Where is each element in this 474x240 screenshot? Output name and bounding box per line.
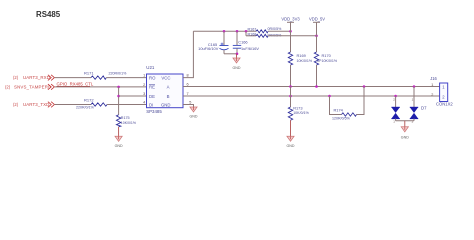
- svg-text:(2): (2): [13, 102, 19, 107]
- svg-text:RE: RE: [149, 85, 155, 90]
- junction A R170: [315, 85, 318, 88]
- svg-text:(2): (2): [5, 84, 11, 89]
- junction B R174: [328, 95, 331, 98]
- junction A R174: [363, 85, 366, 88]
- svg-text:10K/0/1%: 10K/0/1%: [121, 121, 136, 125]
- svg-text:R167: R167: [248, 27, 257, 31]
- svg-text:GND: GND: [115, 144, 123, 148]
- svg-text:120R/0/5%: 120R/0/5%: [332, 116, 351, 120]
- TVS diode D7b: [410, 87, 418, 124]
- svg-text:R171: R171: [84, 70, 94, 75]
- wire UART3_TXD to R172: [55, 104, 91, 106]
- svg-text:R170: R170: [322, 53, 332, 58]
- svg-text:GND: GND: [190, 115, 198, 119]
- wire 5V rail to R170: [316, 36, 318, 52]
- svg-text:VDD_5V: VDD_5V: [309, 17, 325, 22]
- port UART3_RXD: [13, 75, 50, 80]
- TVS diode D7a: [391, 96, 399, 124]
- junction C166: [236, 30, 239, 33]
- junction 3V3 rail: [289, 30, 292, 33]
- wire R172 to U21 pin4: [107, 104, 147, 106]
- svg-text:10K/0/1%: 10K/0/1%: [322, 59, 338, 63]
- svg-text:7: 7: [187, 92, 189, 96]
- wire vertical RE-DE tie down to R175: [118, 87, 120, 115]
- resistor R172: [91, 103, 107, 106]
- junction RE tie: [117, 86, 120, 89]
- svg-text:VCC: VCC: [161, 75, 170, 80]
- svg-text:UART3_TXD: UART3_TXD: [23, 102, 49, 107]
- svg-text:1: 1: [143, 74, 145, 78]
- capacitor C166: [233, 31, 260, 54]
- ground under R173: [287, 136, 295, 148]
- port symbol row2 chevron: [48, 84, 55, 90]
- wire R167 to VDD_3V3 rail: [268, 30, 291, 32]
- wire R168 branch stem: [245, 31, 247, 36]
- svg-text:R174: R174: [334, 108, 344, 113]
- junction A TVS2: [413, 85, 416, 88]
- junction R168 branch: [245, 30, 248, 33]
- svg-text:10uF/6/10V: 10uF/6/10V: [198, 46, 219, 51]
- junction B TVS1: [394, 95, 397, 98]
- wire cap bottoms join: [224, 53, 237, 55]
- svg-text:A: A: [167, 85, 170, 90]
- svg-text:2: 2: [393, 98, 395, 102]
- junction DE row: [117, 95, 120, 98]
- wire R174 right riser to A: [357, 87, 365, 115]
- svg-text:1uF/6/16V: 1uF/6/16V: [241, 46, 259, 51]
- IC U21 SP3485: [146, 65, 183, 114]
- svg-text:R173: R173: [293, 106, 302, 111]
- connector J16: [430, 76, 453, 106]
- wire GND pin5: [183, 105, 194, 108]
- wire VCC top rail: [193, 30, 256, 32]
- wire VCC pin8 up: [183, 31, 193, 77]
- port SNVS_TAMPER0: [5, 84, 51, 89]
- svg-text:R175: R175: [121, 116, 130, 120]
- ground under U21 pin5: [190, 107, 198, 119]
- resistor R174: [342, 113, 357, 116]
- svg-text:CON1X2: CON1X2: [436, 101, 453, 106]
- ground under R175: [115, 136, 123, 148]
- svg-text:8: 8: [187, 73, 189, 77]
- svg-text:J16: J16: [430, 76, 437, 81]
- svg-text:GND: GND: [401, 135, 409, 139]
- svg-text:SNVS_TAMPER0: SNVS_TAMPER0: [14, 85, 51, 90]
- svg-text:GPIO_RX485_CTL: GPIO_RX485_CTL: [57, 81, 94, 86]
- wire bus B: [183, 95, 440, 97]
- wire R173 to ground: [290, 120, 292, 136]
- resistor R169: [288, 52, 292, 65]
- svg-text:DE: DE: [149, 94, 155, 99]
- power VDD_5V: [309, 17, 325, 36]
- junction 5V rail: [315, 35, 318, 38]
- svg-text:10K/0/1%: 10K/0/1%: [297, 59, 313, 63]
- port symbol row1 chevron: [48, 75, 55, 81]
- svg-text:GND: GND: [287, 144, 295, 148]
- svg-text:B: B: [167, 94, 170, 99]
- svg-text:220R/0/1%: 220R/0/1%: [109, 71, 128, 75]
- svg-text:C166: C166: [238, 39, 247, 44]
- wire R169 to bus A: [290, 65, 292, 87]
- port UART3_TXD: [13, 102, 49, 107]
- svg-text:RO: RO: [149, 75, 156, 80]
- svg-text:DI: DI: [149, 102, 153, 107]
- svg-text:220R/0/1%: 220R/0/1%: [76, 106, 95, 110]
- port symbol row3 chevron: [48, 102, 55, 108]
- svg-text:0R/0/5%: 0R/0/5%: [268, 27, 283, 31]
- svg-text:R168: R168: [248, 32, 257, 36]
- wire R170 to bus A: [316, 65, 318, 87]
- wire SNVS_TAMPER0 to U21 pin2: [55, 86, 147, 88]
- svg-text:R169: R169: [297, 53, 306, 58]
- svg-text:1: 1: [431, 83, 433, 87]
- wire R168 to VDD_5V rail: [268, 35, 317, 37]
- pin numbers U21 left: [143, 74, 145, 105]
- capacitor C165: [198, 31, 228, 54]
- wire R171 to U21 pin1: [106, 77, 146, 79]
- svg-text:U21: U21: [146, 65, 155, 70]
- wire bus A: [183, 86, 440, 88]
- svg-text:VDD_3V3: VDD_3V3: [281, 17, 300, 22]
- junction cap gnd: [236, 53, 239, 56]
- ground under D7: [401, 127, 409, 140]
- svg-text:R172: R172: [84, 97, 94, 102]
- wire B to R173: [290, 96, 292, 107]
- svg-text:4: 4: [143, 101, 145, 105]
- svg-text:1: 1: [412, 98, 414, 102]
- ground under C165 C166: [233, 58, 241, 70]
- svg-text:GND: GND: [161, 102, 171, 107]
- svg-text:10K/0/1%: 10K/0/1%: [293, 111, 309, 115]
- wire TVS bottoms join: [396, 120, 414, 122]
- wire UART3_RXD to R171: [55, 77, 91, 79]
- svg-text:RS485: RS485: [36, 10, 61, 19]
- wire R174 left riser from B: [330, 96, 342, 115]
- wire DE pin3: [119, 95, 147, 97]
- svg-text:UART3_RXD: UART3_RXD: [23, 75, 50, 80]
- svg-text:3: 3: [143, 92, 145, 96]
- svg-text:D7: D7: [421, 106, 427, 111]
- wire R175 to ground: [118, 127, 120, 137]
- resistor R171: [91, 76, 106, 79]
- resistor R175: [116, 115, 120, 127]
- junction A R169: [289, 85, 292, 88]
- svg-text:2: 2: [431, 93, 433, 97]
- svg-text:2: 2: [143, 83, 145, 87]
- power VDD_3V3: [281, 17, 300, 32]
- junction C165: [223, 30, 226, 33]
- wire rail between A and B at R173: [290, 87, 292, 97]
- wire 3V3 rail to R169: [290, 31, 292, 52]
- svg-text:SP3485: SP3485: [146, 109, 162, 114]
- svg-text:GND: GND: [233, 66, 241, 70]
- resistor R168: [256, 34, 268, 37]
- resistor R167: [256, 30, 268, 33]
- resistor R173: [288, 107, 292, 120]
- junction B R173: [289, 95, 292, 98]
- pin numbers U21 right: [187, 73, 192, 104]
- svg-text:(2): (2): [13, 75, 19, 80]
- svg-text:1: 1: [393, 120, 395, 124]
- svg-text:2: 2: [412, 120, 414, 124]
- resistor R170: [314, 52, 318, 65]
